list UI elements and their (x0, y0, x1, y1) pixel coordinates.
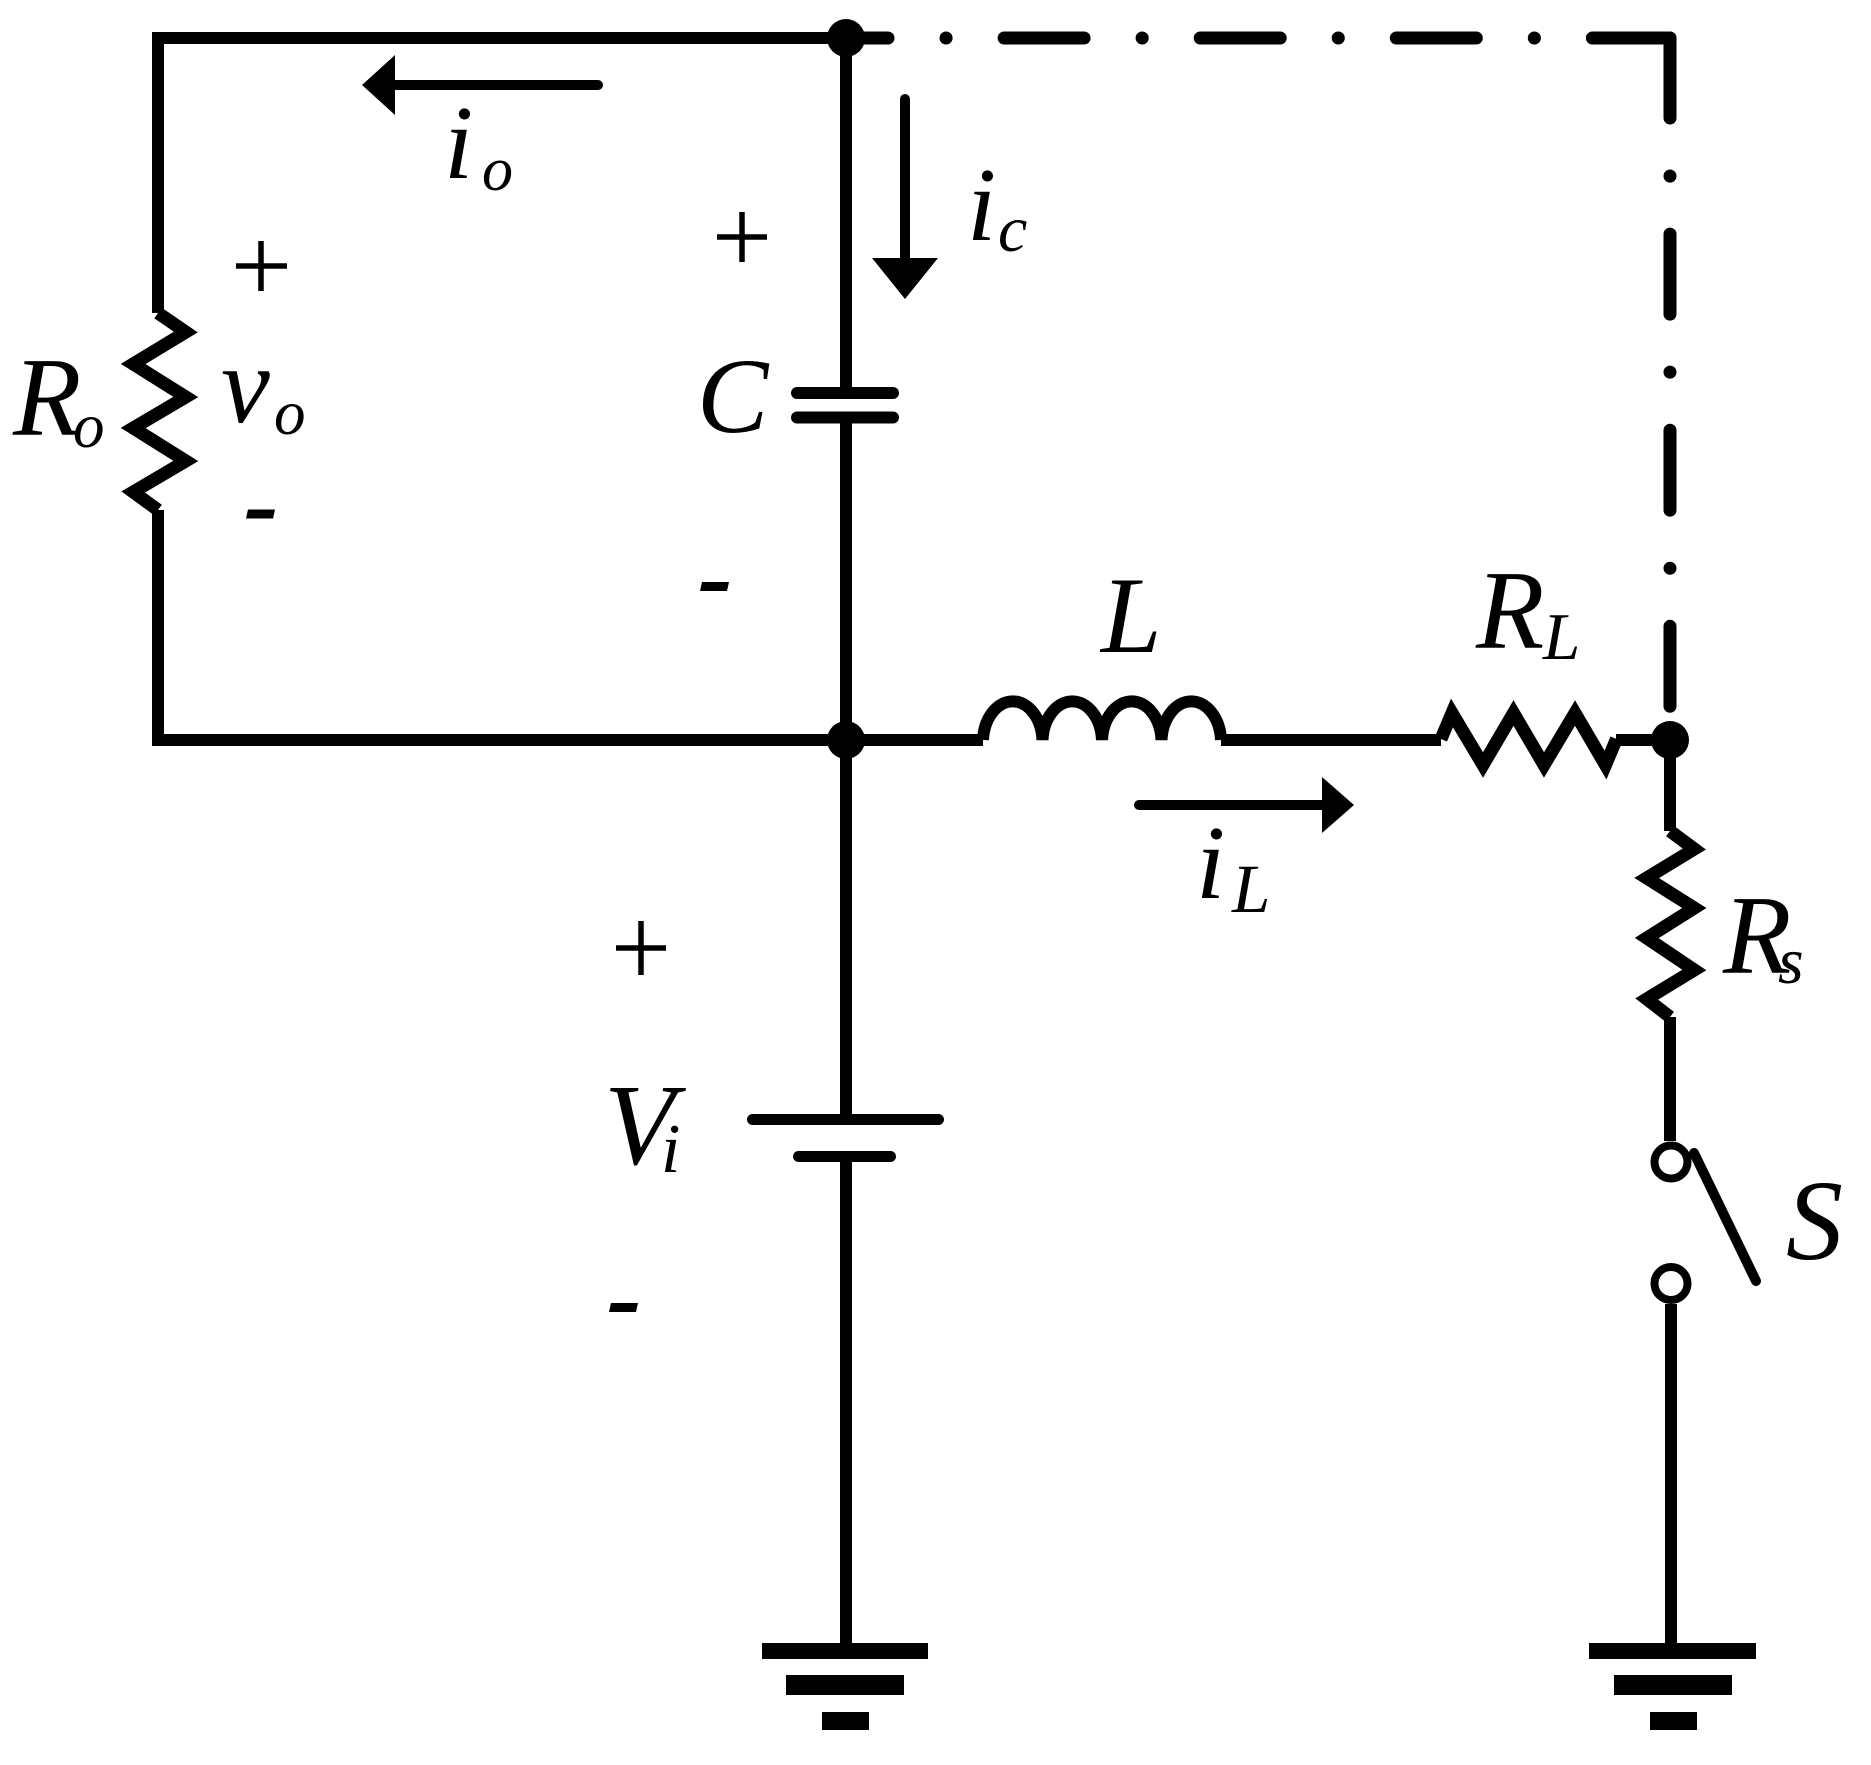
svg-text:S: S (1786, 1157, 1843, 1284)
svg-text:s: s (1778, 925, 1804, 998)
svg-text:L: L (1099, 555, 1162, 676)
svg-text:o: o (73, 391, 105, 461)
svg-text:v: v (221, 324, 270, 446)
svg-text:o: o (482, 136, 513, 204)
svg-text:i: i (444, 84, 473, 201)
svg-text:i: i (661, 1111, 680, 1188)
svg-text:L: L (1231, 851, 1270, 927)
svg-text:C: C (697, 338, 770, 456)
svg-text:c: c (998, 193, 1027, 266)
svg-text:L: L (1542, 600, 1580, 674)
svg-text:i: i (1196, 804, 1225, 921)
svg-text:R: R (1475, 549, 1544, 673)
svg-text:R: R (12, 336, 81, 460)
svg-text:i: i (967, 146, 996, 263)
svg-text:o: o (274, 378, 306, 448)
